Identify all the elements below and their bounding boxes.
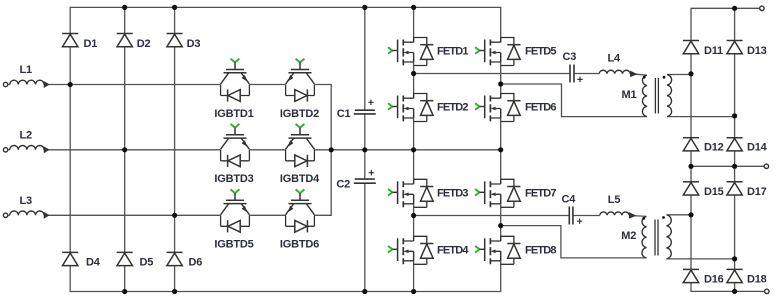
svg-text:L2: L2 [20, 130, 33, 142]
svg-text:FETD1: FETD1 [437, 46, 468, 58]
svg-text:L4: L4 [608, 53, 622, 65]
svg-text:C2: C2 [336, 178, 350, 190]
svg-text:C3: C3 [563, 51, 577, 63]
svg-text:D14: D14 [747, 142, 768, 154]
svg-text:FETD2: FETD2 [437, 102, 468, 114]
svg-text:D11: D11 [704, 45, 723, 57]
svg-text:D5: D5 [140, 256, 154, 268]
svg-text:IGBTD2: IGBTD2 [280, 108, 319, 120]
svg-text:D17: D17 [747, 186, 767, 198]
svg-text:D13: D13 [747, 45, 767, 57]
svg-text:FETD4: FETD4 [437, 245, 469, 257]
svg-text:C1: C1 [337, 108, 351, 120]
svg-text:FETD3: FETD3 [437, 188, 468, 200]
svg-text:D12: D12 [704, 142, 724, 154]
svg-text:FETD8: FETD8 [525, 245, 556, 257]
svg-text:L1: L1 [20, 64, 33, 76]
svg-text:IGBTD4: IGBTD4 [280, 173, 320, 185]
svg-text:D2: D2 [137, 38, 151, 50]
svg-text:L3: L3 [20, 195, 33, 207]
svg-text:M1: M1 [622, 89, 637, 101]
svg-text:D3: D3 [187, 38, 201, 50]
svg-text:D1: D1 [84, 38, 98, 50]
svg-text:L5: L5 [608, 194, 621, 206]
svg-text:D15: D15 [704, 186, 724, 198]
svg-text:FETD6: FETD6 [525, 102, 556, 114]
svg-text:M2: M2 [621, 230, 636, 242]
svg-text:IGBTD5: IGBTD5 [214, 238, 253, 250]
svg-text:IGBTD1: IGBTD1 [214, 108, 253, 120]
svg-text:IGBTD3: IGBTD3 [214, 173, 253, 185]
svg-text:D4: D4 [86, 256, 101, 268]
svg-text:FETD5: FETD5 [525, 46, 556, 58]
svg-text:D16: D16 [704, 273, 724, 285]
svg-text:FETD7: FETD7 [525, 188, 556, 200]
svg-text:C4: C4 [562, 193, 577, 205]
svg-text:IGBTD6: IGBTD6 [280, 238, 319, 250]
svg-text:D6: D6 [189, 256, 203, 268]
svg-text:D18: D18 [747, 273, 767, 285]
